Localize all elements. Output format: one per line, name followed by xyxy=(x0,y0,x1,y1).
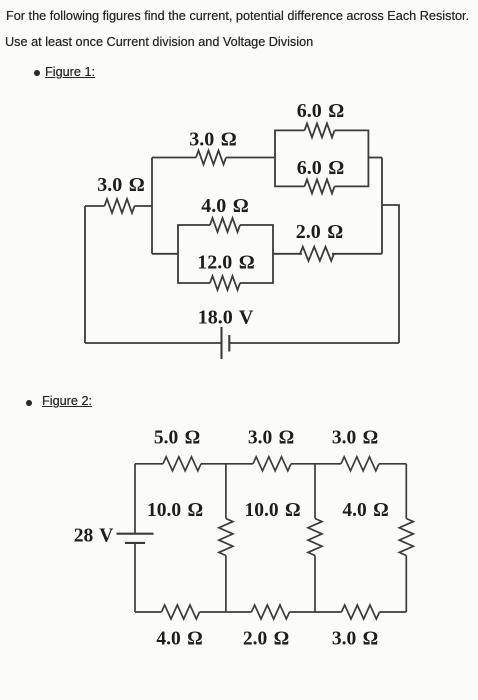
svg-text:6.0 Ω: 6.0 Ω xyxy=(297,100,345,122)
svg-text:5.0 Ω: 5.0 Ω xyxy=(154,428,200,449)
svg-text:3.0 Ω: 3.0 Ω xyxy=(97,174,145,196)
svg-text:4.0 Ω: 4.0 Ω xyxy=(156,629,202,650)
svg-text:2.0 Ω: 2.0 Ω xyxy=(243,629,289,650)
svg-text:3.0 Ω: 3.0 Ω xyxy=(332,428,378,449)
svg-text:4.0 Ω: 4.0 Ω xyxy=(201,195,249,217)
svg-text:10.0 Ω: 10.0 Ω xyxy=(147,500,203,521)
svg-text:28 V: 28 V xyxy=(74,526,114,547)
svg-text:2.0 Ω: 2.0 Ω xyxy=(296,221,344,243)
svg-text:3.0 Ω: 3.0 Ω xyxy=(332,629,378,650)
svg-text:18.0 V: 18.0 V xyxy=(198,307,254,329)
svg-text:3.0 Ω: 3.0 Ω xyxy=(189,129,237,151)
svg-text:3.0 Ω: 3.0 Ω xyxy=(248,428,294,449)
svg-text:10.0 Ω: 10.0 Ω xyxy=(244,500,300,521)
svg-text:6.0 Ω: 6.0 Ω xyxy=(297,157,345,179)
svg-text:4.0 Ω: 4.0 Ω xyxy=(342,500,388,521)
svg-text:12.0 Ω: 12.0 Ω xyxy=(197,252,255,274)
